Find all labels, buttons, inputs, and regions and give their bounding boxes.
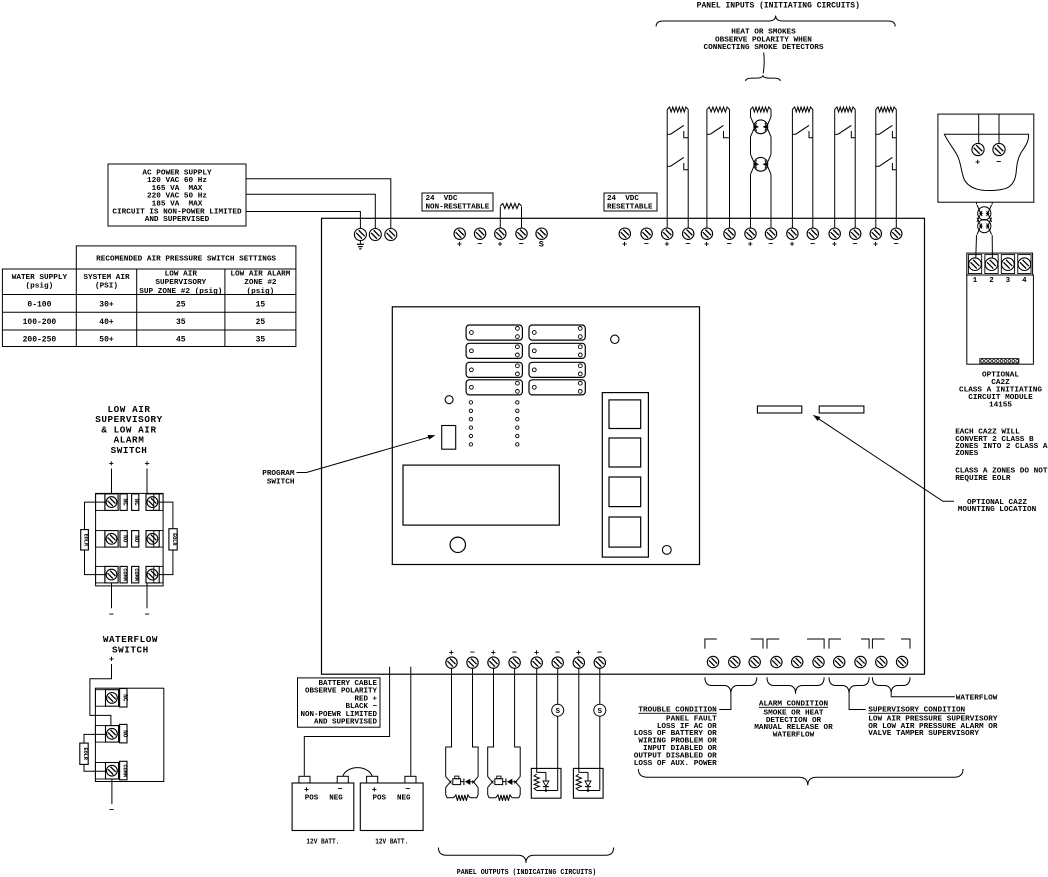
svg-text:AC POWER SUPPLY: AC POWER SUPPLY xyxy=(142,169,212,177)
wire AC hot to terminal 3 xyxy=(246,179,391,229)
connector block J1 outline xyxy=(602,393,648,557)
smoke detector SD1 zone 3 xyxy=(750,110,752,117)
svg-text:−: − xyxy=(519,240,524,250)
brace all conditions xyxy=(638,769,963,785)
low air switch label COMM right xyxy=(132,566,139,583)
svg-text:+: + xyxy=(144,459,149,469)
terminal 24VDC non-resettable + #1 xyxy=(454,228,465,239)
strobe S circle xyxy=(599,668,601,704)
remote detector terminal - xyxy=(993,143,1005,155)
wire zone 5 right leg xyxy=(854,110,856,229)
svg-text:(psig): (psig) xyxy=(247,288,275,296)
PCB board outline xyxy=(392,307,699,565)
EOL resistor zone 3 xyxy=(751,107,772,112)
svg-text:+: + xyxy=(457,240,462,250)
CA2Z pin header xyxy=(980,359,1019,364)
remote detector body outline xyxy=(944,134,1028,190)
wire detector box to polarity devices xyxy=(976,202,978,204)
strobe EOL resistor xyxy=(534,774,539,791)
brace PANEL OUTPUTS xyxy=(438,848,613,864)
brace supervisory group xyxy=(829,677,869,694)
EOL resistor on non-resettable output xyxy=(499,207,501,229)
relay K2 xyxy=(466,343,522,358)
wire bell + drop xyxy=(488,668,494,776)
svg-text:24 VDC: 24 VDC xyxy=(607,195,639,203)
svg-text:NO: NO xyxy=(121,730,128,738)
brace alarm group xyxy=(767,677,824,694)
svg-text:−: − xyxy=(852,240,857,250)
brace over panel inputs xyxy=(656,16,895,27)
wire AC neutral to terminal 2 xyxy=(246,194,375,229)
svg-text:−: − xyxy=(405,784,410,794)
svg-text:12V BATT.: 12V BATT. xyxy=(375,839,408,847)
low air switch label NC left xyxy=(120,494,127,511)
terminal 24VDC non-resettable - #2 xyxy=(474,228,485,239)
svg-text:+: + xyxy=(372,785,377,795)
svg-text:25: 25 xyxy=(176,300,186,309)
svg-text:RESETTABLE: RESETTABLE xyxy=(607,204,653,212)
wire battery positive xyxy=(304,667,389,776)
terminal zone 4 + xyxy=(787,228,798,239)
relay K8 xyxy=(529,380,585,395)
low air switch label NO right xyxy=(132,531,139,548)
remote detector terminal + xyxy=(972,143,984,155)
svg-text:ZONE #2: ZONE #2 xyxy=(244,279,277,287)
svg-text:CONNECTING SMOKE DETECTORS: CONNECTING SMOKE DETECTORS xyxy=(704,44,824,52)
condition terminal 10 xyxy=(896,656,907,667)
wire zone 5 left leg xyxy=(834,110,836,229)
EOL resistor zone 6 xyxy=(876,107,897,112)
polarity device pair below detector box xyxy=(978,207,991,220)
module slot mark group 2 left xyxy=(767,639,779,649)
low air switch row NO tabs xyxy=(96,531,105,548)
svg-text:S: S xyxy=(539,240,544,250)
svg-text:100-200: 100-200 xyxy=(23,318,57,327)
CA2Z terminal 3 xyxy=(1001,255,1014,274)
svg-text:14155: 14155 xyxy=(989,401,1012,409)
wire battery negative xyxy=(410,667,412,776)
module slot mark group 4 right xyxy=(901,639,910,649)
condition terminal 5 xyxy=(792,656,803,667)
waterflow switch terminal NO xyxy=(106,726,119,743)
svg-text:40+: 40+ xyxy=(99,318,114,327)
relay K4 xyxy=(466,380,522,395)
svg-text:−: − xyxy=(337,784,342,794)
wire polarity devices to CA2Z terminals xyxy=(975,235,978,257)
wire strobe + drop xyxy=(578,668,580,772)
svg-text:PROGRAM: PROGRAM xyxy=(262,470,295,478)
svg-text:REQUIRE EOLR: REQUIRE EOLR xyxy=(955,475,1011,483)
PCB pad column A xyxy=(469,401,472,404)
wire strobe - drop xyxy=(599,716,601,790)
svg-text:NC: NC xyxy=(122,498,129,506)
svg-text:0-100: 0-100 xyxy=(27,300,51,309)
svg-text:+: + xyxy=(304,785,309,795)
program switch S1 xyxy=(442,426,456,450)
terminal zone 5 - xyxy=(850,228,861,239)
leader arrow to program switch xyxy=(297,436,434,473)
svg-text:S: S xyxy=(555,708,560,716)
svg-text:50+: 50+ xyxy=(99,336,114,345)
svg-text:WATER SUPPLY: WATER SUPPLY xyxy=(12,274,68,282)
PCB hole bottom center xyxy=(450,537,465,552)
svg-text:3: 3 xyxy=(1006,277,1011,285)
brace trouble group xyxy=(705,677,757,694)
low air switch terminal NO right xyxy=(146,531,159,548)
PCB hole top right xyxy=(611,335,619,343)
wire zone 6 right leg xyxy=(895,110,897,229)
terminal zone 1 + xyxy=(662,228,673,239)
svg-text:12V BATT.: 12V BATT. xyxy=(306,839,339,847)
wire zone 2 right leg xyxy=(729,110,731,229)
svg-text:−: − xyxy=(109,806,114,816)
waterflow switch label NC xyxy=(120,689,127,708)
svg-text:HEAT OR SMOKES: HEAT OR SMOKES xyxy=(731,28,796,36)
low air switch terminal NC left xyxy=(105,494,118,511)
svg-text:45: 45 xyxy=(176,336,186,345)
PCB hole bottom right xyxy=(662,546,671,555)
condition terminal 6 xyxy=(813,656,824,667)
low air switch row NC tabs xyxy=(96,494,105,511)
wire zone 3 between detectors xyxy=(750,137,752,155)
svg-text:−: − xyxy=(810,240,815,250)
svg-text:200-250: 200-250 xyxy=(23,336,57,345)
terminal zone 1 - xyxy=(683,228,694,239)
wire waterflow COMM to - xyxy=(111,779,113,804)
relay K3 xyxy=(466,362,522,377)
svg-text:+: + xyxy=(664,240,669,250)
CA2Z module body xyxy=(967,275,1034,364)
bell EOL resistor xyxy=(488,787,496,797)
svg-text:MOUNTING LOCATION: MOUNTING LOCATION xyxy=(958,506,1037,514)
terminal zone 3 + xyxy=(745,228,756,239)
waterflow switch body xyxy=(95,688,163,781)
svg-text:AND SUPERVISED: AND SUPERVISED xyxy=(145,216,210,224)
wire to remote detector - xyxy=(998,114,1000,143)
CA2Z mounting pad left xyxy=(757,406,801,413)
svg-text:SWITCH: SWITCH xyxy=(111,445,148,456)
svg-text:165 VA MAX: 165 VA MAX xyxy=(152,185,203,193)
svg-text:−: − xyxy=(996,158,1001,168)
svg-text:S: S xyxy=(598,708,603,716)
strobe S circle xyxy=(557,668,559,704)
strobe device box xyxy=(531,768,561,798)
svg-text:−: − xyxy=(477,240,482,250)
svg-text:EOLR: EOLR xyxy=(82,747,88,760)
initiating contact zone 1 switch A xyxy=(667,133,670,135)
svg-text:NEG: NEG xyxy=(329,794,343,802)
terminal zone 6 + xyxy=(870,228,881,239)
svg-text:4: 4 xyxy=(1022,277,1027,285)
svg-text:SWITCH: SWITCH xyxy=(112,644,149,655)
battery B2 xyxy=(360,783,423,831)
EOL resistor zone 5 xyxy=(835,107,856,112)
bell connection X right xyxy=(514,777,520,784)
svg-text:1: 1 xyxy=(973,277,978,285)
table recommended air pressure switch settings xyxy=(76,246,296,269)
label box 24 VDC RESETTABLE xyxy=(604,193,657,211)
polarized bell symbol xyxy=(453,779,461,785)
module slot mark group 3 left xyxy=(829,639,841,649)
svg-text:LOSS OF AUX. POWER: LOSS OF AUX. POWER xyxy=(634,760,717,768)
waterflow switch row NC tab xyxy=(95,690,105,707)
EOL resistor zone 4 xyxy=(792,107,812,112)
waterflow switch label COMM xyxy=(120,761,127,780)
svg-text:COMM: COMM xyxy=(122,568,128,580)
svg-text:WATERFLOW: WATERFLOW xyxy=(773,732,815,740)
svg-text:WATERFLOW: WATERFLOW xyxy=(956,695,998,703)
CA2Z terminal 4 xyxy=(1018,255,1031,274)
waterflow switch terminal COMM xyxy=(106,763,119,780)
LCD display outline xyxy=(403,465,559,525)
low air switch body xyxy=(96,493,164,586)
wire zone 4 left leg xyxy=(791,110,793,229)
EOL resistor zone 1 xyxy=(667,107,688,112)
EOLR left low air xyxy=(85,502,105,529)
svg-text:POS: POS xyxy=(305,794,319,802)
waterflow switch row COMM tab xyxy=(95,763,105,780)
svg-text:EOLR: EOLR xyxy=(171,533,177,546)
low air switch terminal COMM left xyxy=(105,566,118,583)
svg-text:SUPERVISORY: SUPERVISORY xyxy=(155,279,206,287)
svg-text:NO: NO xyxy=(122,535,129,543)
waterflow switch label NO xyxy=(120,724,127,743)
svg-text:25: 25 xyxy=(256,318,266,327)
condition terminal 4 xyxy=(771,656,782,667)
svg-text:NON-RESETTABLE: NON-RESETTABLE xyxy=(426,204,490,212)
battery jumper cable xyxy=(343,768,372,777)
terminal zone 6 - xyxy=(891,228,902,239)
module slot mark group 2 right xyxy=(807,639,824,649)
module slot mark group 1 left xyxy=(705,639,717,649)
svg-text:SYSTEM AIR: SYSTEM AIR xyxy=(83,274,130,282)
CA2Z terminal strip xyxy=(967,253,1033,275)
strobe bottom rail xyxy=(579,790,600,792)
low air switch terminal NO left xyxy=(105,531,118,548)
wire zone 1 right leg xyxy=(687,110,689,229)
svg-text:SWITCH: SWITCH xyxy=(267,479,295,487)
svg-text:2: 2 xyxy=(989,277,994,285)
svg-text:EOLR: EOLR xyxy=(83,534,89,547)
AC terminal TB-N xyxy=(369,229,381,241)
module slot mark group 3 right xyxy=(861,639,869,649)
svg-text:−: − xyxy=(644,240,649,250)
wire bell - drop xyxy=(515,668,521,776)
condition terminal 2 xyxy=(729,656,740,667)
low air switch terminal NC right xyxy=(146,494,159,511)
wire zone 2 left leg xyxy=(706,110,708,229)
svg-text:24 VDC: 24 VDC xyxy=(426,195,458,203)
leader from smoke note xyxy=(762,53,765,74)
EOLR right low air xyxy=(159,502,173,529)
waterflow switch terminal NC xyxy=(106,690,119,707)
low air switch label NC right xyxy=(132,494,139,511)
battery cable note box xyxy=(298,678,381,727)
low air switch terminal COMM right xyxy=(146,566,159,583)
panel enclosure outline xyxy=(322,218,925,674)
wire zone 4 right leg xyxy=(812,110,814,229)
terminal 24VDC non-resettable - #4 xyxy=(516,228,527,239)
wire zone 1 left leg xyxy=(666,110,668,229)
wire zone 3 to terminals xyxy=(750,174,752,228)
initiating contact zone 6 switch B xyxy=(876,165,879,167)
wire zone 6 left leg xyxy=(875,110,877,229)
svg-text:+: + xyxy=(109,654,114,664)
svg-text:−: − xyxy=(685,240,690,250)
svg-text:30+: 30+ xyxy=(99,300,114,309)
connector J1 opening 1 xyxy=(609,400,641,429)
svg-text:15: 15 xyxy=(256,300,266,309)
relay K1 xyxy=(466,325,522,340)
svg-text:COMM: COMM xyxy=(121,764,127,776)
svg-text:PANEL INPUTS (INITIATING CIRCU: PANEL INPUTS (INITIATING CIRCUITS) xyxy=(697,1,860,10)
module slot mark group 1 right xyxy=(751,639,763,649)
low air switch label COMM left xyxy=(120,566,127,583)
svg-text:185 VA MAX: 185 VA MAX xyxy=(152,201,203,209)
AC terminal TB-H xyxy=(385,229,397,241)
bell connection X left xyxy=(488,777,494,784)
svg-text:NEG: NEG xyxy=(397,794,411,802)
smoke detector SD2 zone 3 xyxy=(754,157,768,171)
svg-text:35: 35 xyxy=(176,318,186,327)
condition terminal 8 xyxy=(855,656,866,667)
svg-text:NC: NC xyxy=(121,694,128,702)
connector J1 opening 2 xyxy=(609,438,641,467)
label box 24 VDC NON-RESETTABLE xyxy=(422,193,493,211)
terminal zone 2 - xyxy=(724,228,735,239)
wire AC ground to terminal 1 xyxy=(246,212,360,230)
svg-text:LOW AIR ALARM: LOW AIR ALARM xyxy=(230,270,290,278)
svg-text:+: + xyxy=(622,240,627,250)
svg-text:+: + xyxy=(832,240,837,250)
ground symbol xyxy=(359,241,361,245)
svg-text:SUP ZONE #2 (psig): SUP ZONE #2 (psig) xyxy=(139,288,222,296)
terminal 24VDC non-resettable S #5 xyxy=(536,228,547,239)
terminal zone 5 + xyxy=(829,228,840,239)
remote detector enclosure box xyxy=(938,114,1034,202)
brace over smoke zone xyxy=(746,75,781,81)
CA2Z terminal 1 xyxy=(968,255,981,274)
svg-text:NO: NO xyxy=(133,535,140,543)
waterflow switch row NO tab xyxy=(95,726,105,743)
connector J1 opening 3 xyxy=(609,477,641,507)
wire to remote detector + xyxy=(978,114,980,143)
initiating contact zone 1 switch B xyxy=(667,165,670,167)
initiating contact zone 2 switch A xyxy=(707,133,710,135)
relay K6 xyxy=(529,343,585,358)
condition terminal 1 xyxy=(707,656,718,667)
connector J1 opening 4 xyxy=(609,517,641,547)
battery B1 xyxy=(292,783,354,831)
leader arrow to CA2Z mounting location xyxy=(815,416,955,501)
wire low air COMM left to - xyxy=(111,583,113,608)
terminal 24VDC non-resettable + #3 xyxy=(495,228,506,239)
low air switch label NO left xyxy=(120,531,127,548)
svg-text:+: + xyxy=(497,240,502,250)
svg-text:+: + xyxy=(975,158,980,168)
initiating contact zone 6 switch A xyxy=(876,133,879,135)
strobe device box xyxy=(573,768,603,798)
svg-text:PANEL OUTPUTS (INDICATING CIRC: PANEL OUTPUTS (INDICATING CIRCUITS) xyxy=(457,869,596,877)
brace waterflow group xyxy=(872,677,910,694)
terminal zone 2 + xyxy=(701,228,712,239)
svg-text:AND SUPERVISED: AND SUPERVISED xyxy=(314,719,378,727)
AC power supply note box xyxy=(108,164,246,226)
AC terminal TB-GND xyxy=(354,229,366,241)
bell EOL resistor xyxy=(446,787,454,797)
svg-text:(psig): (psig) xyxy=(26,283,54,291)
terminal zone 3 - xyxy=(765,228,776,239)
relay K7 xyxy=(529,362,585,377)
module slot mark group 4 left xyxy=(872,639,884,649)
low air switch row COMM tabs xyxy=(96,566,105,583)
CA2Z terminal 2 xyxy=(985,255,998,274)
svg-text:+: + xyxy=(704,240,709,250)
strobe bottom rail xyxy=(537,790,558,792)
svg-text:+: + xyxy=(748,240,753,250)
wire bell + drop xyxy=(446,668,452,776)
svg-text:−: − xyxy=(727,240,732,250)
condition terminal 9 xyxy=(876,656,887,667)
svg-text:−: − xyxy=(144,610,149,620)
strobe EOL resistor xyxy=(576,774,581,791)
condition terminal 3 xyxy=(749,656,760,667)
svg-text:VALVE TAMPER SUPERVISORY: VALVE TAMPER SUPERVISORY xyxy=(868,730,979,738)
wire bell - drop xyxy=(473,668,479,776)
svg-text:POS: POS xyxy=(373,794,387,802)
terminal zone 4 - xyxy=(807,228,818,239)
svg-text:+: + xyxy=(873,240,878,250)
svg-text:220 VAC 50 Hz: 220 VAC 50 Hz xyxy=(147,193,207,201)
initiating contact zone 4 switch A xyxy=(792,133,795,135)
PCB pad column B xyxy=(516,401,519,404)
CA2Z mounting pad right xyxy=(819,406,864,413)
svg-text:+: + xyxy=(109,459,114,469)
svg-text:CIRCUIT IS NON-POWER LIMITED: CIRCUIT IS NON-POWER LIMITED xyxy=(112,208,242,216)
svg-text:(PSI): (PSI) xyxy=(95,283,118,291)
svg-text:35: 35 xyxy=(256,336,266,345)
terminal 24VDC resettable + xyxy=(619,228,630,239)
svg-text:120 VAC 60 Hz: 120 VAC 60 Hz xyxy=(147,177,207,185)
strobe diode xyxy=(579,771,588,773)
svg-text:LOW AIR: LOW AIR xyxy=(165,270,198,278)
bell connection X left xyxy=(446,777,452,784)
condition terminal 7 xyxy=(834,656,845,667)
wire strobe - drop xyxy=(557,716,559,790)
PCB hole left xyxy=(445,396,453,404)
svg-text:−: − xyxy=(768,240,773,250)
wire low air COMM right to - xyxy=(146,583,148,608)
svg-text:−: − xyxy=(893,240,898,250)
EOL resistor zone 2 xyxy=(707,107,730,112)
svg-text:ZONES: ZONES xyxy=(955,450,978,458)
svg-text:COMM: COMM xyxy=(133,568,139,580)
terminal 24VDC resettable - xyxy=(641,228,652,239)
svg-text:−: − xyxy=(109,610,114,620)
svg-text:RECOMENDED AIR PRESSURE SWITCH: RECOMENDED AIR PRESSURE SWITCH SETTINGS xyxy=(96,255,276,263)
wire strobe + drop xyxy=(536,668,538,772)
EOLR waterflow xyxy=(84,734,106,743)
bell connection X right xyxy=(472,777,478,784)
polarized bell symbol xyxy=(495,779,503,785)
relay K5 xyxy=(529,325,585,340)
svg-text:+: + xyxy=(790,240,795,250)
svg-text:NC: NC xyxy=(133,498,140,506)
strobe diode xyxy=(537,771,546,773)
initiating contact zone 5 switch A xyxy=(835,133,838,135)
